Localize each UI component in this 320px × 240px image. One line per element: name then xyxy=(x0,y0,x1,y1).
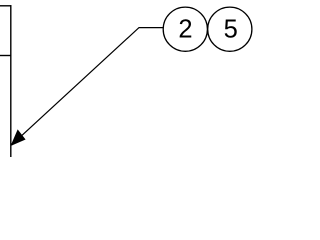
balloon callout pin 2 xyxy=(163,7,207,51)
arrowhead xyxy=(12,130,25,145)
wire stub tick xyxy=(0,55,11,57)
balloon callout pin 5 xyxy=(208,7,252,51)
svg-text:2: 2 xyxy=(178,16,192,44)
wire vertical segment xyxy=(10,5,12,157)
wire top horizontal segment xyxy=(0,5,11,7)
svg-text:5: 5 xyxy=(224,16,238,44)
leader line xyxy=(12,28,164,145)
